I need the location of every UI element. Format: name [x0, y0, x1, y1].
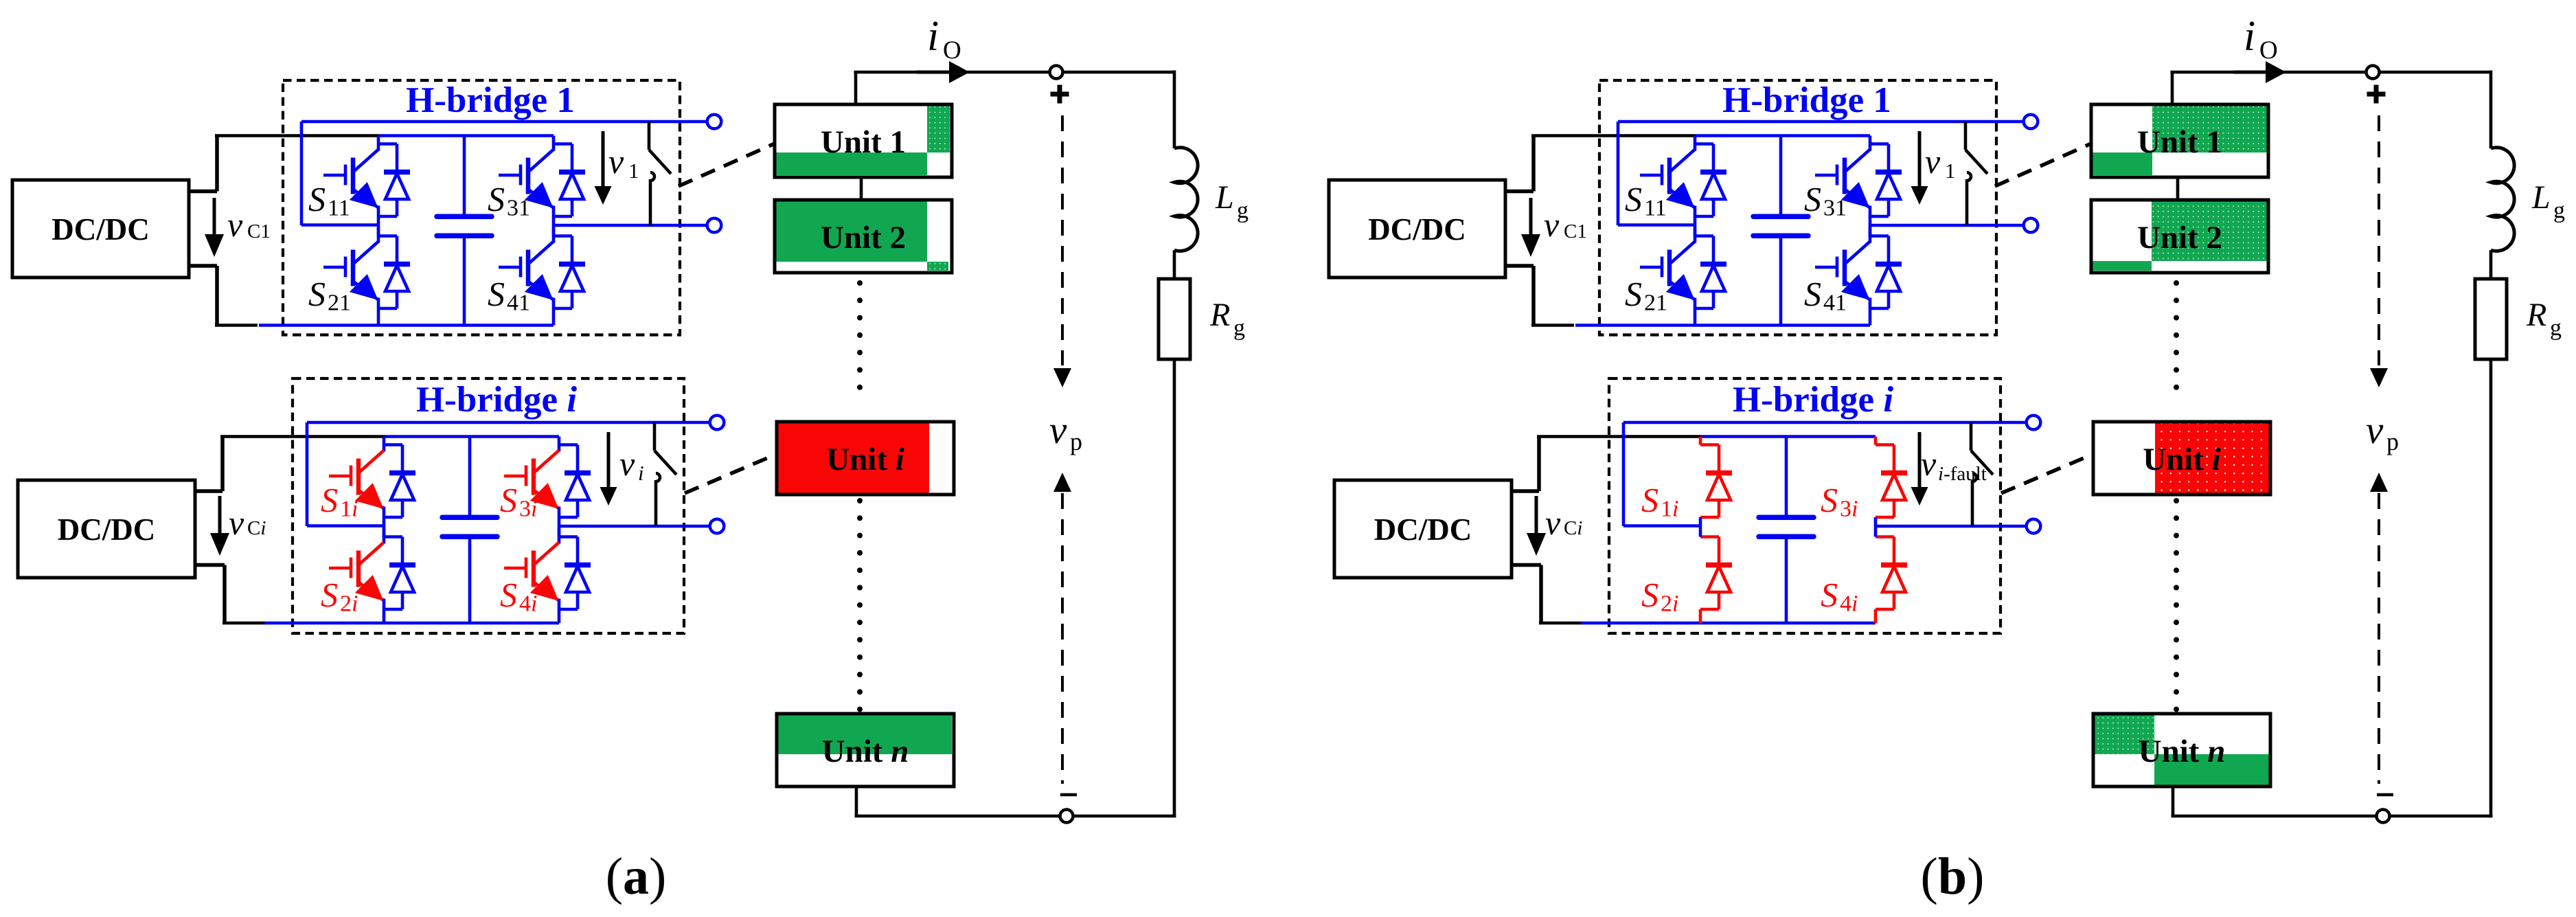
label S11 (b, H-bridge 1)	[1625, 180, 1667, 221]
svg-text:Unit i: Unit i	[826, 442, 904, 477]
node output junction with terminal circle (b)	[2367, 66, 2380, 79]
wire Unit 1 to Unit 2 link (b)	[2176, 177, 2180, 200]
dotted continuation (units omitted) between Unit 2 and Unit i (a)	[857, 280, 863, 390]
svg-text:31: 31	[1823, 196, 1847, 221]
svg-text:g: g	[1233, 315, 1245, 341]
svg-text:1: 1	[628, 159, 639, 183]
arrow phase voltage v_p downward dashed (b)	[2370, 115, 2388, 387]
transistor IGBT S4i with antiparallel diode (a, H-bridge i)	[504, 529, 591, 624]
svg-text:O: O	[2259, 36, 2278, 65]
svg-text:H-bridge 1: H-bridge 1	[406, 80, 575, 120]
label (a) caption	[606, 848, 667, 905]
svg-text:S: S	[1804, 180, 1821, 218]
svg-text:S: S	[1625, 275, 1642, 313]
wire dashed association H-bridge i to Unit i (b)	[2001, 454, 2093, 493]
label S21 (b, H-bridge 1)	[1625, 275, 1667, 316]
svg-text:DC/DC: DC/DC	[52, 212, 150, 247]
svg-text:S: S	[1625, 180, 1642, 218]
arrow capacitor voltage v_Ci (a, module i)	[210, 496, 229, 556]
node bottom junction terminal circle (b)	[2377, 810, 2390, 823]
svg-text:DC/DC: DC/DC	[1374, 512, 1472, 547]
wire DC- from DC/DC to bridge (a, module 1)	[189, 266, 258, 326]
label S31 (b, H-bridge 1)	[1804, 180, 1847, 221]
svg-text:Ci: Ci	[1564, 517, 1582, 539]
wire output top rail from left-leg midpoint to terminal (b, H-bridge 1)	[1618, 122, 2025, 225]
label v_1 (b, H-bridge 1)	[1925, 142, 1956, 183]
svg-text:H-bridge i: H-bridge i	[1733, 380, 1893, 420]
label S21 (a, H-bridge 1)	[308, 275, 351, 316]
label R_g (a)	[1209, 297, 1245, 341]
svg-text:Unit n: Unit n	[822, 734, 909, 769]
svg-text:11: 11	[328, 196, 350, 221]
svg-text:v: v	[227, 205, 243, 244]
wire DC+ rail (b, H-bridge i faulted)	[1701, 435, 1876, 438]
label L_g (b)	[2531, 179, 2565, 223]
svg-text:p: p	[1070, 428, 1082, 455]
arrow phase voltage v_p downward dashed (a)	[1053, 115, 1071, 387]
capacitor DC-link (b, H-bridge 1)	[1753, 136, 1808, 326]
svg-text:4i: 4i	[1840, 591, 1858, 617]
svg-text:3i: 3i	[519, 497, 537, 522]
svg-text:DC/DC: DC/DC	[58, 512, 156, 547]
label v_Ci (a, module i)	[229, 503, 266, 542]
wire left-leg midpoint connector (b, H-bridge 1)	[1694, 216, 1697, 236]
node output terminal top (a, H-bridge 1)	[707, 115, 722, 129]
label v_i (a, H-bridge i)	[619, 444, 644, 485]
node output terminal top (b, H-bridge 1)	[2024, 115, 2038, 129]
capacitor DC-link (b, H-bridge i faulted)	[1759, 437, 1814, 624]
svg-text:v: v	[608, 142, 624, 181]
arrow output current direction i_O (a)	[917, 61, 970, 83]
wire resistor down to bottom return (b)	[2489, 359, 2493, 816]
label v_C1 (b, module 1)	[1544, 205, 1587, 244]
capacitor DC-link (a, H-bridge i)	[442, 437, 497, 624]
wire inductor to resistor (a)	[1173, 250, 1176, 279]
diode S4i (b, H-bridge i faulted)	[1876, 537, 1907, 624]
svg-text:Unit n: Unit n	[2139, 734, 2226, 769]
dotted continuation (units omitted) between Unit i and Unit n (b)	[2174, 498, 2179, 712]
svg-text:v: v	[1545, 503, 1561, 542]
svg-text:i: i	[927, 13, 939, 60]
label S11 (a, H-bridge 1)	[308, 180, 350, 221]
H-bridge dashed enclosure box (b, H-bridge 1)	[1599, 80, 1996, 335]
Unit cell block "Unit i" (a) with duty-pattern fill	[777, 422, 954, 495]
label + polarity (b)	[2367, 85, 2386, 104]
wire from Unit 1 top to output node (b)	[2171, 72, 2239, 104]
wire dashed association H-bridge 1 to Unit 1 (b)	[1995, 144, 2091, 186]
svg-text:C1: C1	[247, 220, 271, 242]
svg-text:v: v	[2366, 409, 2384, 452]
svg-text:v: v	[229, 503, 244, 542]
node output terminal top (a, H-bridge i)	[710, 416, 725, 430]
transistor IGBT S31 with antiparallel diode (b, H-bridge 1)	[1815, 136, 1902, 217]
wire DC- rail (a, H-bridge i)	[264, 622, 559, 625]
svg-text:C1: C1	[1564, 220, 1587, 242]
label L_g (a)	[1215, 179, 1249, 223]
wire DC+ from DC/DC to bridge (b, module i)	[1512, 437, 1702, 492]
label i_O (a)	[927, 13, 961, 65]
node output terminal top (b, H-bridge i faulted)	[2027, 416, 2041, 430]
diode S1i (b, H-bridge i faulted)	[1700, 437, 1732, 518]
svg-text:21: 21	[328, 291, 351, 316]
node output terminal bottom (b, H-bridge 1)	[2024, 218, 2038, 233]
switch bypass disconnect (a, H-bridge 1)	[649, 122, 671, 225]
label v_C1 (a, module 1)	[227, 205, 271, 244]
wire output node to grid branch (b)	[2282, 71, 2491, 149]
svg-text:21: 21	[1644, 291, 1667, 316]
transistor IGBT S41 with antiparallel diode (a, H-bridge 1)	[499, 228, 585, 326]
switch bypass disconnect (b, H-bridge 1)	[1965, 122, 1987, 225]
svg-text:S: S	[1821, 481, 1838, 519]
arrow output voltage v_i-fault (b, H-bridge i faulted)	[1911, 432, 1928, 506]
node output terminal bottom (a, H-bridge i)	[710, 519, 725, 534]
Unit cell block "Unit 1" (b) with duty-pattern fill	[2091, 104, 2268, 177]
wire output bottom line from right-leg midpoint to terminal (b, H-bridge 1)	[1870, 224, 2025, 227]
node output junction with terminal circle (a)	[1050, 66, 1063, 79]
label v_Ci (b, module i)	[1545, 503, 1582, 542]
svg-text:(b): (b)	[1921, 848, 1985, 905]
svg-text:S: S	[321, 576, 338, 614]
svg-text:Unit 2: Unit 2	[2137, 220, 2222, 256]
wire DC+ rail (a, H-bridge i)	[385, 435, 559, 438]
DC/DC converter block (b, module 1)	[1329, 180, 1505, 278]
label S2i (b, H-bridge i faulted)	[1641, 576, 1678, 617]
svg-text:2i: 2i	[340, 591, 358, 617]
label S2i (a, H-bridge i)	[321, 576, 358, 617]
arrow output voltage v_1 (a, H-bridge 1)	[595, 131, 612, 205]
wire right-leg midpoint connector (b, H-bridge 1)	[1869, 216, 1872, 236]
wire output bottom line from right-leg midpoint to terminal (a, H-bridge 1)	[554, 224, 708, 227]
svg-text:L: L	[2531, 179, 2551, 216]
svg-text:p: p	[2386, 428, 2399, 455]
label S1i (a, H-bridge i)	[321, 481, 358, 522]
capacitor DC-link (a, H-bridge 1)	[437, 136, 492, 326]
label (b) caption	[1921, 848, 1985, 905]
svg-text:i-fault: i-fault	[1938, 463, 1987, 485]
arrow capacitor voltage v_C1 (a, module 1)	[205, 198, 224, 257]
wire DC- rail (b, H-bridge i faulted)	[1581, 622, 1876, 625]
H-bridge dashed enclosure box (a, H-bridge i)	[293, 378, 684, 633]
label − polarity (b)	[2377, 793, 2393, 797]
resistor R_g (b)	[2475, 279, 2507, 359]
svg-text:S: S	[308, 275, 326, 313]
label "H-bridge 1" title of bridge (b, H-bridge 1)	[1722, 80, 1891, 120]
svg-text:Unit 1: Unit 1	[821, 124, 906, 160]
transistor IGBT S21 with antiparallel diode (b, H-bridge 1)	[1640, 228, 1726, 326]
wire bottom return from Unit n to node (b)	[2172, 786, 2493, 816]
svg-text:Unit 2: Unit 2	[821, 220, 906, 256]
label S41 (a, H-bridge 1)	[488, 275, 530, 316]
H-bridge dashed enclosure box (b, H-bridge i faulted)	[1609, 378, 2001, 633]
inductor L_g (b)	[2491, 148, 2514, 251]
arrow output voltage v_1 (b, H-bridge 1)	[1911, 131, 1928, 205]
svg-text:2i: 2i	[1661, 591, 1678, 617]
svg-text:S: S	[1641, 576, 1659, 614]
svg-text:(a): (a)	[606, 848, 667, 905]
wire DC+ from DC/DC to bridge (b, module 1)	[1505, 136, 1696, 192]
arrow capacitor voltage v_C1 (b, module 1)	[1521, 198, 1540, 257]
svg-text:11: 11	[1644, 196, 1667, 221]
wire DC+ from DC/DC to bridge (a, module i)	[195, 437, 385, 492]
label S4i (b, H-bridge i faulted)	[1821, 576, 1858, 617]
DC/DC converter block (a, module i)	[18, 480, 195, 578]
Unit cell block "Unit n" (b) with duty-pattern fill	[2093, 714, 2270, 786]
svg-text:Unit i: Unit i	[2143, 442, 2221, 477]
label R_g (b)	[2526, 297, 2562, 341]
H-bridge dashed enclosure box (a, H-bridge 1)	[283, 80, 680, 335]
wire bottom return from Unit n to node (a)	[855, 786, 1176, 816]
diode S3i (b, H-bridge i faulted)	[1876, 437, 1907, 518]
wire DC- from DC/DC to bridge (b, module 1)	[1505, 266, 1574, 326]
transistor IGBT S21 with antiparallel diode (a, H-bridge 1)	[323, 228, 410, 326]
label i_O (b)	[2244, 13, 2278, 65]
wire output top rail from left-leg midpoint to terminal (b, H-bridge i faulted)	[1623, 422, 2027, 526]
svg-text:31: 31	[507, 196, 530, 221]
arrow capacitor voltage v_Ci (b, module i)	[1527, 496, 1546, 556]
wire left-leg midpoint connector (a, H-bridge 1)	[377, 216, 380, 236]
wire output top rail from left-leg midpoint to terminal (a, H-bridge 1)	[301, 122, 708, 225]
svg-text:H-bridge 1: H-bridge 1	[1722, 80, 1891, 120]
svg-text:DC/DC: DC/DC	[1368, 212, 1466, 247]
svg-text:S: S	[500, 576, 517, 614]
label "H-bridge i" title of bridge (a, H-bridge i)	[416, 380, 577, 420]
svg-text:S: S	[1804, 275, 1821, 313]
DC/DC converter block (a, module 1)	[12, 180, 189, 278]
wire DC- rail (b, H-bridge 1)	[1575, 324, 1870, 327]
svg-text:R: R	[1209, 297, 1230, 333]
wire DC- rail (a, H-bridge 1)	[259, 324, 554, 327]
wire dashed association H-bridge 1 to Unit 1 (a)	[679, 144, 775, 186]
switch bypass disconnect (a, H-bridge i)	[654, 422, 676, 526]
label v_p (a)	[1049, 409, 1082, 455]
wire DC+ from DC/DC to bridge (a, module 1)	[189, 136, 379, 192]
svg-text:O: O	[943, 36, 961, 65]
svg-text:L: L	[1215, 179, 1234, 216]
svg-text:v: v	[1544, 205, 1560, 244]
wire from Unit 1 top to output node (a)	[854, 72, 922, 104]
label S41 (b, H-bridge 1)	[1804, 275, 1847, 316]
svg-text:1i: 1i	[340, 497, 358, 522]
switch bypass disconnect (b, H-bridge i faulted)	[1971, 422, 1993, 526]
svg-text:41: 41	[507, 291, 530, 316]
svg-text:41: 41	[1823, 291, 1847, 316]
Unit cell block "Unit 2" (b) with duty-pattern fill	[2091, 200, 2268, 273]
svg-text:S: S	[488, 275, 505, 313]
svg-text:S: S	[321, 481, 338, 519]
svg-text:g: g	[1237, 198, 1249, 223]
label − polarity (a)	[1060, 793, 1077, 797]
Unit cell block "Unit 2" (a) with duty-pattern fill	[775, 200, 952, 273]
svg-text:v: v	[619, 444, 635, 483]
svg-text:S: S	[488, 180, 505, 218]
svg-text:R: R	[2526, 297, 2546, 333]
dotted continuation (units omitted) between Unit i and Unit n (a)	[857, 498, 863, 712]
wire right-leg midpoint connector (b, H-bridge i faulted)	[1874, 517, 1878, 537]
Unit cell block "Unit n" (a) with duty-pattern fill	[777, 714, 954, 786]
svg-text:i: i	[2244, 13, 2255, 60]
wire output node to grid branch (a)	[966, 71, 1174, 149]
svg-text:g: g	[2550, 315, 2562, 341]
svg-text:1: 1	[1945, 159, 1956, 183]
wire output bottom line from right-leg midpoint to terminal (a, H-bridge i)	[559, 525, 711, 528]
wire DC- from DC/DC to bridge (a, module i)	[195, 565, 265, 624]
Unit cell block "Unit 1" (a) with duty-pattern fill	[775, 104, 952, 177]
wire right-leg midpoint connector (a, H-bridge 1)	[552, 216, 556, 236]
node output terminal bottom (a, H-bridge 1)	[707, 218, 722, 233]
label S31 (a, H-bridge 1)	[488, 180, 530, 221]
transistor IGBT S2i with antiparallel diode (a, H-bridge i)	[329, 529, 415, 624]
svg-text:v: v	[1921, 444, 1937, 483]
arrow output voltage v_i (a, H-bridge i)	[600, 432, 617, 506]
wire output bottom line from right-leg midpoint to terminal (b, H-bridge i faulted)	[1876, 525, 2027, 528]
wire DC+ rail (a, H-bridge 1)	[379, 134, 554, 137]
svg-text:S: S	[500, 481, 517, 519]
svg-text:3i: 3i	[1840, 497, 1858, 522]
arrow phase voltage v_p upward dashed (b)	[2370, 473, 2388, 784]
label S4i (a, H-bridge i)	[500, 576, 537, 617]
svg-text:S: S	[1821, 576, 1838, 614]
label S3i (a, H-bridge i)	[500, 481, 537, 522]
wire dashed association H-bridge i to Unit i (a)	[685, 454, 777, 493]
svg-text:S: S	[308, 180, 326, 218]
wire left-leg midpoint connector (b, H-bridge i faulted)	[1699, 517, 1702, 537]
node bottom junction terminal circle (a)	[1060, 810, 1073, 823]
label v_i-fault (b, H-bridge i faulted)	[1921, 444, 1987, 485]
transistor IGBT S11 with antiparallel diode (b, H-bridge 1)	[1640, 136, 1726, 217]
svg-text:Unit 1: Unit 1	[2137, 124, 2222, 160]
wire DC+ rail (b, H-bridge 1)	[1696, 134, 1870, 137]
transistor IGBT S1i with antiparallel diode (a, H-bridge i)	[329, 437, 415, 518]
label "H-bridge 1" title of bridge (a, H-bridge 1)	[406, 80, 575, 120]
label S1i (b, H-bridge i faulted)	[1641, 481, 1678, 522]
svg-text:i: i	[638, 461, 644, 485]
wire left-leg midpoint connector (a, H-bridge i)	[383, 517, 386, 537]
svg-text:v: v	[1925, 142, 1941, 181]
node output terminal bottom (b, H-bridge i faulted)	[2027, 519, 2041, 534]
wire inductor to resistor (b)	[2489, 250, 2493, 279]
label "H-bridge i" title of bridge (b, H-bridge i faulted)	[1733, 380, 1893, 420]
label v_1 (a, H-bridge 1)	[608, 142, 639, 183]
transistor IGBT S41 with antiparallel diode (b, H-bridge 1)	[1815, 228, 1902, 326]
svg-text:Ci: Ci	[247, 517, 266, 539]
wire right-leg midpoint connector (a, H-bridge i)	[558, 517, 561, 537]
transistor IGBT S11 with antiparallel diode (a, H-bridge 1)	[323, 136, 410, 217]
wire output top rail from left-leg midpoint to terminal (a, H-bridge i)	[307, 422, 711, 526]
Unit cell block "Unit i" (b) with duty-pattern fill	[2093, 422, 2270, 495]
svg-text:1i: 1i	[1661, 497, 1678, 522]
wire Unit 1 to Unit 2 link (a)	[860, 177, 863, 200]
svg-text:H-bridge i: H-bridge i	[416, 380, 577, 420]
label + polarity (a)	[1051, 85, 1069, 104]
svg-text:g: g	[2553, 198, 2565, 223]
svg-text:v: v	[1049, 409, 1067, 452]
transistor IGBT S3i with antiparallel diode (a, H-bridge i)	[504, 437, 591, 518]
arrow output current direction i_O (b)	[2233, 61, 2286, 83]
transistor IGBT S31 with antiparallel diode (a, H-bridge 1)	[499, 136, 585, 217]
inductor L_g (a)	[1174, 148, 1198, 251]
dotted continuation (units omitted) between Unit 2 and Unit i (b)	[2174, 280, 2179, 390]
label S3i (b, H-bridge i faulted)	[1821, 481, 1858, 522]
svg-text:S: S	[1641, 481, 1659, 519]
arrow phase voltage v_p upward dashed (a)	[1053, 473, 1071, 784]
svg-text:4i: 4i	[519, 591, 537, 617]
wire resistor down to bottom return (a)	[1173, 359, 1176, 816]
wire DC- from DC/DC to bridge (b, module i)	[1512, 565, 1582, 624]
resistor R_g (a)	[1159, 279, 1190, 359]
label v_p (b)	[2366, 409, 2399, 455]
diode S2i (b, H-bridge i faulted)	[1700, 537, 1732, 624]
DC/DC converter block (b, module i)	[1334, 480, 1512, 578]
